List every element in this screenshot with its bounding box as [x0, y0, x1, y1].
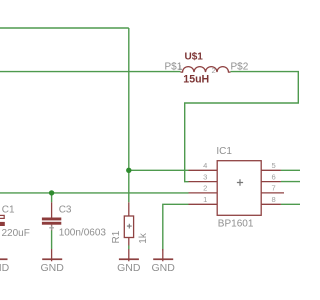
capacitor C3 pin stubs [51, 202, 53, 217]
IC1 pin 1 [189, 203, 218, 205]
wire main rail to pin2 [0, 192, 189, 194]
IC1 pin 3 [189, 181, 218, 183]
IC1 pin 8 [261, 203, 281, 205]
svg-text:GND: GND [0, 262, 10, 274]
svg-text:GND: GND [117, 262, 141, 274]
svg-text:2: 2 [203, 184, 207, 193]
wire net top rail [0, 27, 129, 29]
svg-text:100n/0603: 100n/0603 [59, 228, 107, 239]
capacitor C1 (cut off at left edge) [0, 215, 4, 218]
svg-text:BP1601: BP1601 [218, 219, 254, 230]
wire C3 bottom to GND [51, 231, 53, 250]
wire R1 bottom to GND [128, 246, 130, 250]
R1 origin cross [127, 224, 132, 229]
svg-text:P$2: P$2 [231, 61, 249, 72]
svg-text:C1: C1 [2, 205, 15, 216]
op-amp IC1 box BP1601 [217, 161, 261, 216]
svg-text:IC1: IC1 [216, 146, 232, 157]
wire pins 5 6 8 to right edge [281, 169, 300, 171]
svg-text:5: 5 [272, 161, 276, 170]
svg-text:1: 1 [178, 63, 182, 72]
svg-text:7: 7 [272, 184, 276, 193]
svg-text:1k: 1k [138, 232, 149, 244]
junction node at R1 top / pin4 [126, 168, 131, 173]
IC1 pin 7 [261, 192, 284, 194]
capacitor C3 origin cross [49, 225, 54, 230]
svg-text:4: 4 [203, 161, 207, 170]
wire inductor input rail [0, 71, 181, 73]
inductor U$1 [181, 67, 231, 73]
svg-text:GND: GND [41, 262, 65, 274]
capacitor C3 [42, 218, 61, 225]
wire vertical from top rail to R1 [128, 28, 130, 202]
resistor R1 [124, 216, 133, 238]
wire inductor output to right edge [185, 72, 299, 182]
junction node at C3 / main rail [49, 190, 54, 195]
svg-text:GND: GND [152, 262, 176, 274]
resistor R1 pin stubs [128, 202, 130, 216]
IC1 pin 6 [261, 181, 281, 183]
ground symbol under C3 [51, 249, 53, 261]
svg-text:C3: C3 [59, 205, 72, 216]
IC1 pin 4 [189, 169, 218, 171]
svg-text:3: 3 [203, 172, 207, 181]
svg-text:15uH: 15uH [183, 73, 209, 85]
IC1 pin 5 [261, 169, 281, 171]
svg-text:2: 2 [212, 66, 216, 75]
IC1 pin 2 [189, 192, 218, 194]
svg-text:6: 6 [272, 172, 276, 181]
svg-text:220uF: 220uF [2, 228, 30, 239]
svg-text:8: 8 [272, 195, 276, 204]
IC1 origin cross [237, 179, 243, 185]
svg-text:U$1: U$1 [185, 51, 204, 62]
ground symbol under R1 [128, 249, 130, 261]
wire pin4 from junction [129, 169, 189, 171]
wire pin1 to GND [163, 204, 189, 250]
wire C3 top [51, 193, 53, 202]
ground symbol under pin1 wire [162, 249, 164, 261]
svg-text:R1: R1 [111, 230, 122, 243]
svg-text:1: 1 [203, 195, 207, 204]
